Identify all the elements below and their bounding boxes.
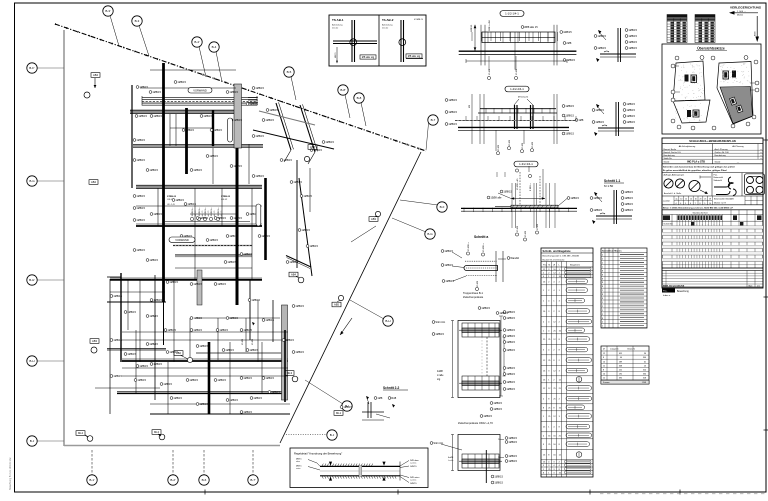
axis bubble B-J left — [37, 440, 64, 442]
beam band y353 right — [196, 352, 281, 354]
svg-text:1Ø8/15: 1Ø8/15 — [448, 98, 457, 102]
section detail S3 arrows — [594, 192, 597, 196]
svg-text:1Ø8/15: 1Ø8/15 — [508, 459, 517, 463]
svg-text:1Ø8/15: 1Ø8/15 — [255, 134, 264, 138]
svg-text:15 Ø8: 15 Ø8 — [537, 223, 539, 230]
T3 row 2 — [601, 358, 649, 360]
uebersicht leader ticks — [675, 65, 679, 67]
T1 row 1 — [541, 270, 593, 272]
beam detail D1 bottom rotated dims — [487, 76, 490, 79]
svg-text:4xØ8: 4xØ8 — [437, 370, 443, 373]
svg-text:15 Ø8 L=: 15 Ø8 L= — [211, 207, 213, 217]
big table row 10 — [662, 257, 763, 259]
svg-text:AB2: AB2 — [310, 145, 315, 149]
pos label P73 — [322, 141, 325, 144]
wall column x236 thick lower — [236, 148, 239, 305]
svg-text:1Ø8/15: 1Ø8/15 — [506, 348, 515, 352]
big table row 2 — [662, 231, 763, 233]
wall x110 thin — [109, 279, 111, 414]
pos label P16 — [133, 207, 136, 210]
pos label P5 — [252, 87, 255, 90]
axis bubble B-I right — [305, 380, 343, 404]
pos label P65 — [262, 319, 265, 322]
svg-text:14: 14 — [603, 374, 605, 376]
svg-text:15 Ø8: 15 Ø8 — [517, 225, 519, 232]
wall column x209 bottom — [208, 342, 211, 414]
pos label P29 — [214, 283, 217, 286]
pos label P69 — [206, 155, 209, 158]
svg-text:1Ø8/15: 1Ø8/15 — [343, 405, 352, 409]
beam detail D2 title oval — [505, 86, 529, 92]
beam detail D2 shaft roof leaders — [514, 99, 519, 105]
svg-text:Schnitt- und Biegeliste: Schnitt- und Biegeliste — [543, 249, 572, 253]
svg-text:1Ø8/15: 1Ø8/15 — [309, 244, 318, 248]
beam detail D2 stirrup ticks — [485, 108, 487, 114]
beam line y414 — [150, 413, 290, 415]
svg-text:1Ø8/15: 1Ø8/15 — [435, 332, 444, 336]
pill label AUFZUG mid — [169, 237, 195, 242]
svg-text:B-G: B-G — [427, 232, 433, 236]
right building cores in gray — [730, 97, 737, 105]
svg-text:668: 668 — [619, 365, 622, 367]
svg-text:1Ø8/15: 1Ø8/15 — [261, 234, 270, 238]
svg-text:1Ø8/15: 1Ø8/15 — [139, 85, 148, 89]
axis bubble B-J right dotted leader — [286, 434, 327, 436]
T1 row 22 — [541, 459, 593, 461]
beam band y393 — [117, 392, 287, 394]
stair detail ST1 landing ticks — [467, 323, 469, 337]
svg-text:14: 14 — [690, 199, 692, 201]
svg-text:Statik:: Statik: — [715, 161, 721, 164]
left building outline lower — [673, 100, 710, 123]
uebersicht axis bubbles — [675, 56, 679, 60]
TS AB-1 wall lines — [351, 20, 353, 62]
T1 row 5 — [541, 294, 593, 296]
svg-text:15 Ø8: 15 Ø8 — [516, 68, 518, 75]
svg-text:5: 5 — [685, 203, 686, 205]
beam detail D2 left labels — [445, 99, 448, 102]
axis bubble B-7&#39; bottom — [252, 450, 254, 475]
big table row 8 — [662, 251, 763, 253]
stair detail ST2 outline — [458, 435, 500, 471]
svg-text:Pos.: Pos. — [714, 174, 718, 176]
beam detail D3 slab — [461, 207, 577, 209]
beam detail D1 verticals — [480, 25, 482, 66]
pos label P12 — [146, 169, 149, 172]
Schnitt 2-2 small detail — [367, 402, 369, 418]
svg-text:1Ø8/15: 1Ø8/15 — [597, 34, 606, 38]
svg-text:1Ø8/15: 1Ø8/15 — [199, 216, 208, 220]
T1 row 14 — [541, 382, 593, 384]
skewed bay cross beam lower — [253, 130, 334, 149]
wall x273 thin lower — [272, 300, 274, 342]
pos label P7 — [150, 115, 153, 118]
svg-text:Bewehrung: Bewehrung — [677, 290, 689, 293]
svg-text:1Ø8/15: 1Ø8/15 — [193, 168, 202, 172]
T1 row 20 — [541, 438, 593, 440]
svg-text:Bauteil: B-1 UG Decke: Bauteil: B-1 UG Decke — [543, 258, 566, 261]
svg-text:1Ø8/15: 1Ø8/15 — [285, 338, 294, 342]
beam line y302 — [107, 301, 166, 303]
svg-text:8 Ø8 L=: 8 Ø8 L= — [530, 182, 532, 191]
title divider vertical — [712, 144, 714, 164]
ref box ML3 bottom mid — [285, 371, 294, 376]
svg-text:1Ø8/15: 1Ø8/15 — [193, 282, 202, 286]
T1 row 16 — [541, 403, 593, 405]
Regeldetail right leaders and labels — [400, 461, 409, 467]
svg-text:ING PLA u STB: ING PLA u STB — [687, 161, 705, 164]
svg-text:Bewehrung B1 UG 100-01 idw: Bewehrung B1 UG 100-01 idw — [9, 457, 12, 490]
wall column x187 thick — [185, 108, 188, 174]
svg-text:1Ø8/15: 1Ø8/15 — [187, 202, 196, 206]
svg-text:1Ø8/15: 1Ø8/15 — [503, 190, 512, 194]
svg-text:B-3: B-3 — [135, 19, 140, 23]
svg-text:Index a: Index a — [663, 295, 671, 297]
axis bubble B-6 bottom — [203, 450, 205, 475]
svg-text:15 Ø8: 15 Ø8 — [525, 230, 527, 237]
svg-text:1Ø8/15: 1Ø8/15 — [593, 208, 602, 212]
T1 row 12 — [541, 364, 593, 366]
T3 row 4 — [601, 366, 649, 368]
dashed beam y245 — [173, 245, 252, 247]
svg-text:Matten: Matten — [737, 14, 743, 17]
svg-text:1Ø8/15: 1Ø8/15 — [213, 128, 222, 132]
section detail S1 wall — [617, 28, 619, 62]
svg-text:1Ø8/15: 1Ø8/15 — [508, 440, 517, 444]
big table narrow columns — [676, 214, 678, 268]
svg-text:1Ø8/15: 1Ø8/15 — [410, 483, 417, 485]
svg-text:8: 8 — [602, 294, 603, 296]
svg-text:1Ø8/15: 1Ø8/15 — [153, 212, 162, 216]
svg-text:10: 10 — [603, 361, 605, 363]
svg-text:2Ø8 L=450: 2Ø8 L=450 — [489, 19, 491, 31]
pos label P28 — [190, 283, 193, 286]
T2 row 7 — [601, 279, 647, 281]
Schnitt a right label — [507, 257, 510, 260]
T3 row 1 — [601, 354, 649, 356]
svg-text:AB4: AB4 — [291, 273, 296, 277]
beam band y349 left — [107, 349, 166, 351]
svg-text:ML2: ML2 — [154, 430, 160, 434]
svg-text:8: 8 — [603, 357, 604, 359]
stair detail ST2 landing box — [462, 454, 499, 468]
svg-text:Decke: Decke — [332, 28, 339, 30]
svg-text:1Ø8/15: 1Ø8/15 — [217, 282, 226, 286]
pos label P32 — [110, 295, 113, 298]
pos label P18 — [150, 213, 153, 216]
svg-text:Beton: C 25/30, Betondeckung c: Beton: C 25/30, Betondeckung cv=2,5 cm, … — [663, 206, 734, 209]
svg-text:6: 6 — [690, 203, 691, 205]
pos label P26 — [146, 259, 149, 262]
svg-text:1Ø8/15: 1Ø8/15 — [253, 396, 262, 400]
svg-text:1Ø8/15: 1Ø8/15 — [283, 158, 292, 162]
Regeldetail mid splice connector — [359, 466, 362, 476]
pos label P54 — [250, 397, 253, 400]
svg-text:4: 4 — [676, 203, 677, 205]
pos label P60 — [280, 159, 283, 162]
svg-text:1Ø8/15: 1Ø8/15 — [626, 114, 635, 118]
building bottom axis line — [64, 445, 280, 447]
svg-text:B-3': B-3' — [105, 9, 111, 13]
pos label P20 — [214, 217, 217, 220]
pos label P44 — [110, 375, 113, 378]
svg-text:8: 8 — [602, 282, 603, 284]
ref box AB-1 top-left of plan — [91, 73, 100, 78]
svg-text:5: 5 — [602, 255, 603, 257]
svg-text:Bewehrungsstahl n. DIN 488 - B: Bewehrungsstahl n. DIN 488 - B500B — [543, 254, 580, 257]
svg-text:334: 334 — [643, 374, 646, 376]
svg-text:1Ø8/15: 1Ø8/15 — [293, 180, 302, 184]
svg-text:Decke: Decke — [382, 28, 389, 30]
svg-text:B-8': B-8' — [340, 88, 346, 92]
T2 row 4 — [601, 267, 647, 269]
svg-text:1Ø8/15: 1Ø8/15 — [153, 362, 162, 366]
T3 row 8 — [601, 383, 649, 385]
skew wall continuation mid-right room — [299, 178, 312, 276]
stamp arrow — [700, 190, 707, 194]
svg-text:B-7': B-7' — [250, 478, 256, 482]
svg-text:1Ø8/15: 1Ø8/15 — [444, 263, 453, 267]
pos label P50 — [262, 377, 265, 380]
svg-text:1Ø8/15: 1Ø8/15 — [175, 198, 184, 202]
ST2 hanging bar — [485, 450, 487, 483]
beam detail D1 title oval — [500, 11, 524, 17]
svg-text:1Ø8/15: 1Ø8/15 — [136, 248, 145, 252]
svg-text:1Ø8/15: 1Ø8/15 — [448, 110, 457, 114]
right building cores upper — [723, 71, 729, 79]
skewed bay slanted wall pair B — [300, 105, 315, 152]
svg-text:oben: oben — [296, 461, 300, 463]
svg-text:1Ø8/15: 1Ø8/15 — [595, 108, 604, 112]
svg-text:Ø8/15: Ø8/15 — [335, 52, 337, 58]
svg-text:1: 1 — [602, 310, 603, 312]
svg-text:BEW. B1 UG DECKE: BEW. B1 UG DECKE — [663, 285, 685, 287]
building left axis line — [63, 30, 65, 446]
svg-text:5: 5 — [602, 259, 603, 261]
beam detail D1 top mid label — [521, 26, 524, 29]
beam detail D2 right labels — [562, 105, 565, 108]
pos label P72 — [310, 149, 313, 152]
beam detail D3 bottom rotated dims — [515, 233, 518, 236]
pos label P37 — [110, 339, 113, 342]
T2 row 12 — [601, 299, 647, 301]
T3 total row — [601, 380, 649, 384]
beam detail D3 top small ticks — [496, 172, 498, 177]
svg-text:B-H': B-H' — [29, 278, 35, 282]
svg-text:1Ø8/15: 1Ø8/15 — [595, 120, 604, 124]
svg-text:unten: unten — [296, 467, 301, 470]
T3 row 5 — [601, 371, 649, 373]
svg-text:1Ø8/15: 1Ø8/15 — [624, 202, 633, 206]
pos label P68 — [210, 129, 213, 132]
svg-text:1Ø8/15: 1Ø8/15 — [508, 454, 517, 458]
svg-text:Anbindung: Anbindung — [382, 24, 393, 27]
section detail S3 hook bar — [600, 213, 605, 214]
svg-text:Ø: Ø — [553, 265, 555, 267]
svg-text:1Ø8/15: 1Ø8/15 — [229, 316, 238, 320]
svg-text:B-7: B-7 — [431, 118, 436, 122]
pill label vertical x230 — [228, 118, 233, 142]
stair detail ST1 landing box — [462, 376, 499, 390]
ST2 bottom labels — [491, 475, 494, 478]
svg-text:Blatt: Blatt — [749, 284, 753, 287]
T2 row 1 — [601, 256, 647, 258]
svg-text:15 Ø8 L=: 15 Ø8 L= — [199, 207, 201, 217]
svg-text:2: 2 — [602, 314, 603, 316]
T1 row 13 — [541, 375, 593, 377]
thin grid horizontals — [170, 127, 212, 129]
svg-text:Schnitt a: Schnitt a — [474, 235, 488, 239]
svg-text:B-8: B-8 — [357, 96, 362, 100]
wall x132 upper — [131, 85, 133, 188]
section detail S3 right labels — [621, 191, 624, 194]
pos label P15 — [133, 195, 136, 198]
statik row — [662, 163, 763, 165]
axis bubble B-2&#39; bottom — [172, 450, 174, 475]
svg-text:1Ø8/15: 1Ø8/15 — [295, 350, 304, 354]
ST1 bottom labels — [490, 402, 493, 405]
axis bubble B-G right — [392, 218, 426, 232]
svg-text:Gewicht: Gewicht — [627, 348, 635, 351]
T1 row 25 — [541, 470, 593, 472]
wall column x214 thick — [212, 110, 214, 146]
stair detail ST2 left dim line — [452, 435, 454, 471]
pos label P55 — [262, 119, 265, 122]
section detail S2 left labels — [592, 109, 595, 112]
big table row 12 — [662, 264, 763, 266]
svg-text:Bearbeitung: Bearbeitung — [715, 154, 727, 157]
thin grid verticals — [169, 114, 171, 146]
T2 row 13 — [601, 303, 647, 305]
svg-text:M 1:20: M 1:20 — [417, 19, 424, 21]
svg-text:STRB.02: STRB.02 — [167, 196, 177, 198]
svg-text:Zwischenpodeste OK02 +1,70: Zwischenpodeste OK02 +1,70 — [458, 421, 493, 425]
svg-text:x: x — [761, 152, 762, 154]
pos label P47 — [186, 379, 189, 382]
svg-text:1Ø8/15: 1Ø8/15 — [138, 114, 147, 118]
T2 row 18 — [601, 323, 647, 325]
svg-text:8: 8 — [602, 274, 603, 276]
svg-text:1Ø8/15: 1Ø8/15 — [255, 174, 264, 178]
svg-text:B-H: B-H — [385, 319, 390, 323]
title field rows — [662, 149, 763, 151]
svg-text:1Ø8/15: 1Ø8/15 — [185, 128, 194, 132]
svg-text:15 Ø8: 15 Ø8 — [252, 338, 254, 345]
svg-text:2: 2 — [602, 322, 603, 324]
gray pier x199 crossing — [197, 270, 202, 305]
concrete pier x280 gray — [282, 305, 288, 400]
pill label vertical x258 — [256, 204, 261, 226]
T1 row 11 — [541, 354, 593, 356]
pos label P88 — [164, 329, 167, 332]
pos label P23 — [172, 199, 175, 202]
svg-text:1Ø8/15: 1Ø8/15 — [199, 402, 208, 406]
svg-text:1Ø8/15: 1Ø8/15 — [217, 216, 226, 220]
svg-text:15 Ø8 L=: 15 Ø8 L= — [218, 207, 220, 217]
svg-text:12: 12 — [603, 365, 605, 367]
svg-text:1Ø8: 1Ø8 — [377, 396, 382, 400]
lower small table — [662, 271, 763, 288]
section detail S1 right labels — [625, 29, 628, 32]
svg-text:ML3: ML3 — [287, 371, 293, 375]
svg-text:1Ø8/15: 1Ø8/15 — [448, 122, 457, 126]
svg-text:8: 8 — [603, 370, 604, 372]
axis bubble B-F right — [400, 200, 438, 205]
svg-text:8: 8 — [602, 278, 603, 280]
big table row 3 — [662, 235, 763, 237]
axis bubble B-G left — [37, 180, 64, 182]
left building lower cores — [687, 110, 691, 117]
beam detail D2 shaft walls — [514, 105, 516, 129]
T1 row 15 — [541, 392, 593, 394]
stamp mid bar glyphs — [728, 177, 733, 189]
svg-text:1Ø8/15: 1Ø8/15 — [566, 58, 575, 62]
svg-text:B-G: B-G — [29, 179, 35, 183]
pos label P84 — [292, 351, 295, 354]
pos label P34 — [146, 315, 149, 318]
svg-text:1Ø8/15: 1Ø8/15 — [189, 378, 198, 382]
beam band upper (y99) — [142, 102, 257, 104]
big table dark header cells — [678, 215, 722, 220]
svg-text:1Ø8/15: 1Ø8/15 — [481, 306, 490, 310]
svg-text:VORWAND: VORWAND — [175, 238, 189, 242]
concrete pier x238 gray — [234, 84, 242, 148]
svg-text:1Ø8/15: 1Ø8/15 — [193, 328, 202, 332]
svg-text:15 Ø8 L=: 15 Ø8 L= — [468, 241, 470, 251]
svg-text:Betonstahl: Betonstahl — [714, 176, 724, 179]
pos label P48 — [214, 379, 217, 382]
wall x155 thin — [154, 275, 156, 400]
svg-text:1Ø8/15: 1Ø8/15 — [136, 206, 145, 210]
pos label P35 — [190, 317, 193, 320]
svg-text:1Ø8/15: 1Ø8/15 — [289, 260, 298, 264]
beam detail D2 bottom rotated dims — [507, 147, 510, 150]
north-ish arrow bottom — [340, 318, 352, 335]
wall x121 — [120, 273, 122, 362]
svg-text:AB3: AB3 — [92, 339, 97, 343]
section detail S1 slab — [600, 53, 636, 55]
stair detail ST1 slab band — [462, 381, 499, 386]
axis bubble B-3 — [139, 26, 149, 57]
svg-text:1Ø8/15: 1Ø8/15 — [410, 466, 417, 468]
svg-text:1Ø8/15: 1Ø8/15 — [265, 118, 274, 122]
axis bubble B-F&#39; left — [37, 67, 64, 69]
wall column x163 thick — [162, 63, 165, 302]
svg-text:1Ø8/15: 1Ø8/15 — [227, 260, 236, 264]
T1 row 26 — [541, 473, 593, 475]
svg-text:alle 15: alle 15 — [208, 210, 210, 217]
svg-text:M 1:50: M 1:50 — [604, 184, 614, 188]
svg-text:1Ø8/15: 1Ø8/15 — [243, 376, 252, 380]
beam detail D3 dashed verticals — [519, 172, 521, 205]
svg-text:B-4: B-4 — [212, 45, 217, 49]
wall x297 — [296, 160, 298, 268]
svg-text:B-J: B-J — [30, 439, 35, 443]
svg-text:x: x — [761, 158, 762, 160]
svg-text:L=stoss: L=stoss — [410, 461, 416, 464]
verlege arrow left — [730, 12, 758, 14]
pos label P71 — [266, 109, 269, 112]
svg-text:40: 40 — [620, 357, 622, 359]
ref box AB-2 right of plan upper — [308, 145, 317, 150]
Schnitt a vertical edges — [495, 251, 497, 282]
beam detail D1 bar rectangle — [482, 32, 555, 43]
beam detail D2 bottom dim verticals — [495, 130, 497, 151]
svg-text:Regeldetail "Anordnung der Bew: Regeldetail "Anordnung der Bewehrung" — [294, 452, 342, 456]
section detail S3 wall — [613, 190, 615, 224]
ref box near slant AB-5 — [332, 302, 341, 307]
stamp area dividers — [711, 173, 713, 196]
